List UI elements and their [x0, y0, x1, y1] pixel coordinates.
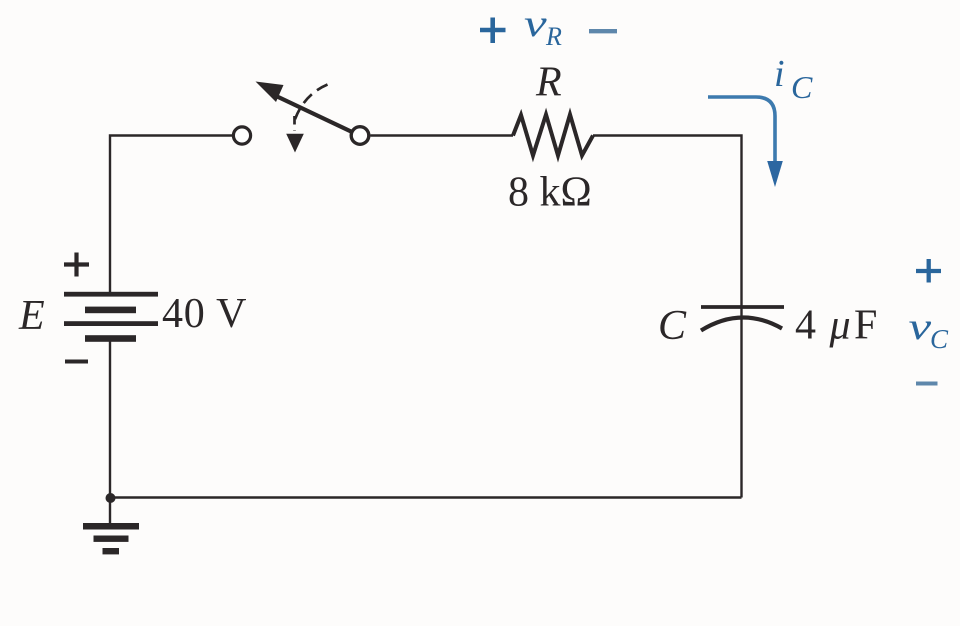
svg-text:μ: μ [829, 303, 851, 349]
resistor R zigzag [513, 115, 593, 156]
switch terminal right [351, 127, 369, 145]
current arrow iC [708, 97, 775, 163]
label battery plus [64, 253, 89, 277]
capacitor C plates [701, 307, 784, 331]
battery E plates [64, 292, 158, 342]
label vC [909, 305, 950, 354]
label minus of vR [589, 29, 617, 33]
wire battery to ground [109, 340, 111, 523]
label vC minus [916, 382, 938, 386]
label vC plus [916, 259, 941, 283]
ground symbol [83, 523, 139, 554]
wire switch to resistor [371, 134, 514, 136]
svg-text:8 kΩ: 8 kΩ [508, 170, 592, 216]
svg-text:4: 4 [795, 303, 816, 349]
switch closing dashed arc [294, 85, 328, 123]
wire left vertical and top-left [110, 136, 233, 295]
svg-text:C: C [930, 324, 949, 354]
switch S [233, 82, 368, 153]
switch closing arrowhead [286, 134, 304, 153]
svg-text:v: v [909, 305, 932, 347]
capacitor top plate [701, 305, 784, 309]
label battery minus [65, 360, 88, 364]
switch blade arrowhead [256, 82, 284, 103]
ground junction dot [106, 493, 116, 503]
svg-text:C: C [791, 69, 813, 105]
svg-text:40 V: 40 V [162, 291, 247, 337]
svg-text:R: R [545, 22, 562, 51]
svg-text:R: R [535, 60, 562, 106]
current arrowhead iC [767, 161, 783, 187]
label iC [774, 53, 813, 105]
switch terminal left [233, 127, 250, 144]
wire bottom horizontal [110, 496, 742, 498]
label vR [524, 2, 562, 51]
svg-text:i: i [774, 53, 785, 95]
svg-text:C: C [658, 303, 687, 349]
svg-text:E: E [18, 293, 45, 339]
switch blade [274, 95, 351, 132]
svg-text:v: v [524, 2, 547, 44]
label plus of vR [480, 18, 506, 44]
svg-text:F: F [854, 303, 877, 349]
wire resistor to corner and right vertical [593, 136, 742, 498]
capacitor curved plate [701, 317, 782, 330]
switch closing dashed stem [293, 116, 296, 131]
